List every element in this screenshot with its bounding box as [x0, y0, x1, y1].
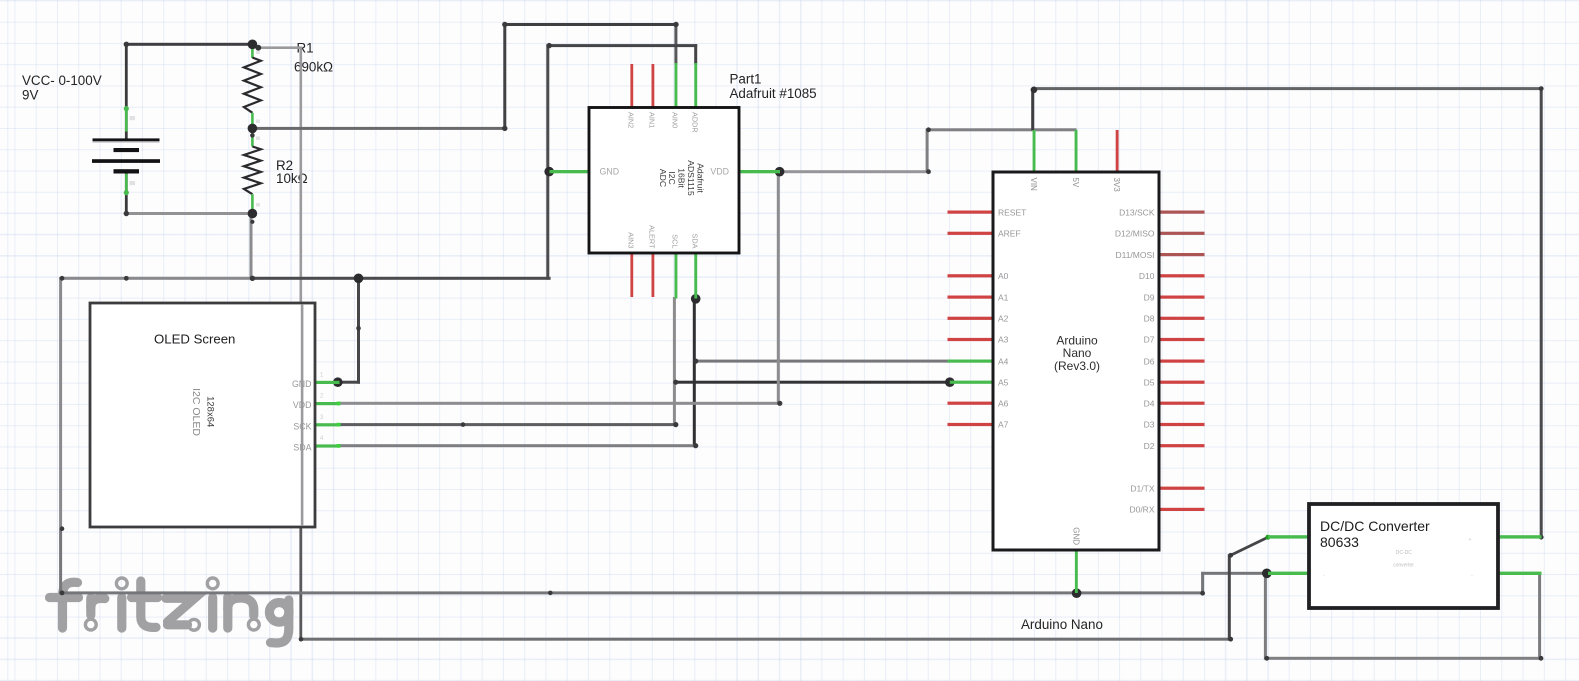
Arduino Nano pin A2 — [948, 317, 995, 320]
resistor R2 terminal marks — [256, 137, 260, 141]
Arduino Nano pin D10 — [1158, 274, 1205, 277]
svg-text:A6: A6 — [998, 398, 1009, 408]
node OLED GND pin — [333, 377, 343, 387]
svg-text:GND: GND — [292, 379, 312, 389]
svg-text:D6: D6 — [1144, 356, 1155, 366]
svg-text:converter: converter — [1393, 563, 1414, 569]
svg-text:I2C OLED: I2C OLED — [190, 388, 202, 436]
svg-text:D11/MOSI: D11/MOSI — [1115, 250, 1154, 260]
ADS1115 body box — [589, 108, 739, 254]
wire drop to ADS AIN0 — [674, 23, 677, 64]
wire x=1541 down to DCDC IN+ — [1540, 87, 1543, 538]
ADS1115 pin SDA (green) — [694, 253, 697, 299]
node battery+ / R1 junction — [248, 40, 258, 50]
svg-text:DC-DC: DC-DC — [1396, 550, 1412, 556]
wire divider midpoint to x=505 — [252, 127, 506, 130]
Arduino Nano pin A4 — [948, 360, 995, 363]
wire vertical x=252 R2 bottom to GND rail — [250, 214, 253, 279]
Arduino Nano pin 3V3 (red) — [1116, 130, 1119, 172]
svg-text:D1/TX: D1/TX — [1130, 483, 1154, 493]
svg-text:1: 1 — [320, 373, 324, 379]
Arduino Nano pin D0/RX — [1158, 508, 1205, 511]
svg-text:AIN0: AIN0 — [671, 112, 680, 128]
wire drop to ADS ADDR — [694, 44, 697, 64]
svg-text:D9: D9 — [1144, 292, 1155, 302]
node GND bus right corner — [1200, 591, 1205, 596]
svg-text:AIN3: AIN3 — [627, 232, 636, 248]
svg-text:D10: D10 — [1139, 271, 1155, 281]
OLED pin SCK (green) — [314, 423, 340, 426]
svg-text:2: 2 — [320, 394, 324, 400]
Arduino Nano body box — [993, 172, 1159, 550]
node GND bus bendpoint x=550 — [548, 591, 553, 596]
svg-text:AREF: AREF — [998, 229, 1021, 239]
svg-text:SCK: SCK — [293, 421, 311, 431]
wire OLED GND horizontal — [338, 381, 360, 384]
node DCDC IN- junction — [1262, 569, 1272, 579]
Arduino Nano pin D13/SCK — [1158, 211, 1205, 214]
wire y=278 GND net left part — [61, 277, 253, 280]
wire long vertical passes over OLED (light) — [301, 304, 304, 526]
battery terminal mark bottom — [130, 181, 136, 185]
Arduino Nano pin D12/MISO — [1158, 232, 1205, 235]
node GND rail / OLED GND riser — [354, 274, 364, 284]
ADS1115 part name (rotated) — [658, 160, 706, 196]
Arduino Nano pin D4 — [1158, 402, 1205, 405]
node R2 drop meets GND rail — [250, 276, 255, 281]
DC/DC converter pin IN- left (green) — [1268, 572, 1310, 575]
battery terminal mark top — [130, 116, 136, 120]
node VDD wire corner x=928 — [926, 169, 931, 174]
wire SCL to Arduino A5 — [674, 381, 950, 384]
svg-text:D7: D7 — [1144, 335, 1155, 345]
wire OLED SDA run y=445.7 — [339, 444, 698, 447]
wire vertical x=62 GND net upper — [59, 277, 62, 529]
svg-text:GND: GND — [600, 167, 620, 177]
node DCDC loop corner left — [1264, 656, 1269, 661]
node SCL riser / A5 wire — [673, 380, 678, 385]
Arduino Nano pin A3 — [948, 338, 995, 341]
svg-text:ADDR: ADDR — [690, 112, 699, 133]
node bendpoint GND rail x=126 — [124, 276, 129, 281]
wire y=45.5 to ADDR drop — [548, 44, 697, 47]
svg-text:D0/RX: D0/RX — [1129, 505, 1154, 515]
svg-text:ALERT: ALERT — [648, 225, 657, 249]
DC/DC converter pin OUT+ left (green) — [1268, 535, 1310, 538]
wire y=593 GND bus — [61, 591, 1204, 594]
svg-text:10kΩ: 10kΩ — [276, 171, 308, 186]
wire OLED GND riser x=358 — [357, 277, 360, 384]
node Arduino A5 junction — [945, 377, 955, 387]
node x=505 top corner — [502, 22, 507, 27]
wire VDD riser x=779.6 — [777, 170, 780, 404]
DC/DC converter pin IN+ right (green) — [1496, 535, 1542, 538]
node VDD riser bottom corner — [777, 401, 782, 406]
Arduino Nano pin RESET — [948, 211, 995, 214]
node x=505 bottom corner — [502, 126, 507, 131]
wire y=572.5 GND to DCDC IN- — [1201, 572, 1267, 575]
svg-text:A1: A1 — [998, 292, 1009, 302]
wire vertical x=505 up — [503, 23, 506, 130]
node diagonal bendpoint — [1228, 553, 1233, 558]
svg-text:D4: D4 — [1144, 398, 1155, 408]
wire battery+ to R1 top — [125, 43, 254, 46]
svg-text:9V: 9V — [22, 88, 38, 103]
Arduino Nano pin D6 — [1158, 360, 1205, 363]
svg-text:D13/SCK: D13/SCK — [1119, 207, 1155, 217]
wire y=129.8 to Arduino 5V — [927, 128, 1076, 131]
wire OLED VDD run y=403.3 — [339, 402, 782, 405]
node OLED GND riser bendpoint — [356, 326, 361, 331]
ADS1115 pin ALERT (red) — [652, 253, 655, 297]
wire y=639 output+ bus — [300, 638, 1232, 641]
resistor R1 terminal marks — [256, 51, 260, 55]
resistor R2 top lead (green) — [251, 131, 254, 147]
battery BT1 plate long top — [93, 138, 160, 141]
Arduino Nano pin D2 — [1158, 444, 1205, 447]
node Arduino GND junction — [1072, 588, 1082, 598]
node ADS VDD junction — [775, 167, 785, 177]
ADS1115 pin ADDR (green) — [694, 63, 697, 108]
node SDA riser / A4 wire — [693, 359, 698, 364]
svg-text:4: 4 — [320, 436, 324, 442]
Arduino Nano pin D9 — [1158, 296, 1205, 299]
svg-text:SDA: SDA — [690, 233, 699, 248]
node below battery- junction — [250, 220, 254, 224]
node output+ bus right corner — [1228, 637, 1233, 642]
svg-text:OLED Screen: OLED Screen — [154, 332, 235, 347]
Arduino Nano pin A0 — [948, 274, 995, 277]
svg-text:AIN2: AIN2 — [627, 112, 636, 128]
wire ADS SCL riser x=675 — [673, 297, 676, 426]
Arduino Nano pin A7 — [948, 423, 995, 426]
wire OLED SCK run y=424.6 — [339, 423, 678, 426]
Arduino Nano pin D8 — [1158, 317, 1205, 320]
node GND rail left corner — [60, 276, 65, 281]
node ADS GND junction — [544, 167, 554, 177]
wire x=1539 loop up to OUT- — [1538, 573, 1541, 660]
OLED pin end caps — [337, 402, 341, 406]
svg-text:SCL: SCL — [671, 234, 680, 248]
Arduino Nano pin GND (green) — [1075, 549, 1078, 593]
node DCDC loop corner right — [1539, 656, 1544, 661]
svg-text:+: + — [1469, 537, 1472, 543]
Arduino Nano pin D11/MOSI — [1158, 253, 1205, 256]
Arduino Nano pin D3 — [1158, 423, 1205, 426]
svg-text:D2: D2 — [1144, 441, 1155, 451]
svg-text:Arduino Nano: Arduino Nano — [1021, 617, 1103, 632]
svg-text:80633: 80633 — [1320, 534, 1359, 550]
ADS1115 pin AIN1 (red) — [652, 64, 655, 108]
wire x=1202.5 GND riser — [1201, 572, 1204, 593]
wire Arduino VIN up — [1031, 89, 1034, 131]
wire x=928 up — [926, 129, 929, 172]
wire x=1230.6 up to diagonal — [1228, 554, 1231, 640]
battery BT1 bottom lead wire — [125, 174, 128, 216]
node battery- / R2 junction — [248, 209, 258, 219]
svg-text:3: 3 — [320, 415, 324, 421]
wire y=658 loop — [1265, 657, 1542, 660]
svg-text:VIN: VIN — [1029, 178, 1038, 192]
svg-text:RESET: RESET — [998, 207, 1026, 217]
Arduino Nano pin A6 — [948, 402, 995, 405]
wire vertical x=549 GND net — [546, 44, 549, 280]
svg-text:A3: A3 — [998, 335, 1009, 345]
svg-text:ADC: ADC — [658, 169, 668, 187]
svg-text:Part1: Part1 — [730, 72, 762, 87]
node divider midpoint R1/R2 — [248, 124, 258, 134]
svg-text:D12/MISO: D12/MISO — [1115, 229, 1155, 239]
battery BT1 bottom lead (green) — [125, 174, 128, 193]
wire vertical x=62 GND net lower — [59, 529, 62, 595]
resistor R2 bottom lead (green) — [251, 194, 254, 213]
node GND bus left corner — [60, 591, 65, 596]
svg-text:AIN1: AIN1 — [648, 112, 657, 128]
Arduino Nano pin D7 — [1158, 338, 1205, 341]
svg-text:SDA: SDA — [293, 443, 311, 453]
node battery+ corner — [124, 42, 129, 47]
node AIN0 drop corner — [673, 22, 678, 27]
svg-text:(Rev3.0): (Rev3.0) — [1054, 359, 1100, 373]
Arduino Nano pin D5 — [1158, 381, 1205, 384]
ADS1115 pin SCL (green) — [675, 253, 678, 299]
svg-text:A0: A0 — [998, 271, 1009, 281]
wire y=278 GND net right part — [251, 277, 551, 280]
svg-text:5V: 5V — [1071, 178, 1080, 188]
svg-text:DC/DC Converter: DC/DC Converter — [1320, 518, 1430, 534]
svg-text:VCC- 0-100V: VCC- 0-100V — [22, 73, 102, 88]
node SCL riser bottom corner — [673, 422, 678, 427]
svg-text:D5: D5 — [1144, 377, 1155, 387]
OLED pin VDD (green) — [314, 402, 340, 405]
Arduino Nano pin AREF — [948, 232, 995, 235]
OLED pin GND (green) — [314, 381, 340, 384]
wire DCDC IN- loop down — [1264, 573, 1267, 659]
wire long vertical x=301 upper (light) — [300, 48, 303, 528]
svg-text:A7: A7 — [998, 420, 1009, 430]
svg-text:A5: A5 — [998, 377, 1009, 387]
wire battery- to R2 bottom — [125, 212, 254, 215]
resistor R1 zigzag body — [244, 58, 261, 113]
battery BT1 plate short 2 — [114, 169, 140, 173]
battery BT1 top lead (green) — [125, 108, 128, 132]
wire SDA to Arduino A4 — [694, 360, 949, 363]
node DCDC IN+ wire end — [1539, 535, 1544, 540]
svg-text:A2: A2 — [998, 314, 1009, 324]
DC/DC converter body box — [1309, 504, 1498, 608]
svg-text:128x64: 128x64 — [205, 396, 216, 427]
svg-text:A4: A4 — [998, 356, 1009, 366]
svg-text:Adafruit #1085: Adafruit #1085 — [730, 86, 817, 101]
ADS1115 pin VDD (green) — [738, 170, 780, 173]
node VIN wire corner — [1031, 87, 1038, 94]
DC/DC converter pin OUT- right (green) — [1496, 572, 1542, 575]
wire ADS VDD to x=928 — [780, 170, 930, 173]
wire long vertical x=301 lower — [299, 528, 302, 641]
node DCDC OUT+ pin end — [1265, 535, 1270, 540]
OLED body box — [90, 303, 315, 527]
node bendpoint x=62 wire — [60, 526, 65, 531]
node ADDR drop corner — [547, 43, 552, 48]
node wire end near R1 top — [255, 45, 261, 51]
node ADS SDA junction — [691, 294, 701, 304]
fritzing watermark logo — [50, 578, 290, 643]
svg-text:VDD: VDD — [710, 167, 729, 177]
resistor R2 zigzag body — [244, 147, 261, 195]
svg-text:GND: GND — [1071, 527, 1080, 545]
node VDD wire corner top — [926, 127, 931, 132]
node SDA riser bottom corner — [693, 443, 698, 448]
Arduino Nano pin 5V (green) — [1075, 130, 1078, 173]
node output+ bus left corner — [299, 637, 304, 642]
wire top y=24.5 to AIN0 drop — [503, 23, 677, 26]
ADS1115 pin AIN0 (green) — [675, 63, 678, 108]
wire VIN bus y=88.5 — [1033, 87, 1543, 90]
resistor R1 top lead (green) — [251, 46, 254, 58]
OLED pin SDA (green) — [314, 444, 340, 447]
wire diagonal to DCDC OUT+ — [1231, 537, 1268, 555]
node SCK wire bendpoint — [461, 422, 466, 427]
Arduino Nano pin D1/TX — [1158, 487, 1205, 490]
svg-text:VDD: VDD — [293, 400, 312, 410]
svg-text:3V3: 3V3 — [1112, 178, 1121, 193]
resistor R1 bottom lead (green) — [251, 113, 254, 129]
node below divider midpoint — [250, 133, 255, 138]
Arduino Nano pin VIN (green) — [1033, 130, 1036, 173]
svg-text:D8: D8 — [1144, 314, 1155, 324]
battery BT1 plate long bottom — [92, 159, 160, 163]
svg-text:D3: D3 — [1144, 420, 1155, 430]
op-amp / ADC U1 ADS1115 pin AIN2 (red) — [630, 64, 633, 108]
node VIN bus right corner — [1539, 86, 1544, 91]
Arduino Nano pin A5 — [950, 381, 994, 384]
battery BT1 top lead wire — [125, 43, 128, 139]
ADS1115 pin GND (green) — [550, 170, 591, 173]
battery BT1 plate short 1 — [114, 148, 140, 152]
node battery- corner — [124, 211, 129, 216]
ADS1115 pin AIN3 (red) — [630, 253, 633, 297]
wire node A to vertical drop (light) — [256, 46, 302, 49]
wire ADS SDA riser x=696 — [693, 299, 696, 447]
Arduino Nano pin A1 — [948, 296, 995, 299]
